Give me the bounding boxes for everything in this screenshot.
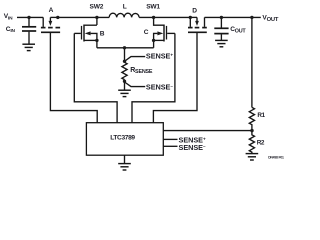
capacitor CIN [28,17,30,26]
ground RSENSE [118,89,131,91]
ground CIN [22,43,35,45]
wire gate B [74,33,117,122]
wire SENSE+ stub [163,138,177,140]
transistor A body diode arrow [49,21,53,26]
node SW2 junction [95,16,98,19]
wire gate D [153,33,197,123]
node D junction [189,16,192,19]
svg-text:C: C [144,29,149,36]
transistor D body diode arrow [195,21,199,26]
node SENSE- junction [123,80,126,83]
svg-text:D: D [192,7,197,14]
svg-text:SENSE+: SENSE+ [146,52,174,61]
node CIN junction [27,16,30,19]
node B source junction [95,39,98,42]
wire FB [163,130,252,132]
svg-text:SW1: SW1 [146,3,160,10]
transistor A [42,17,44,27]
node RSENSE top junction [123,46,126,49]
ground LTC3789 [124,155,126,163]
node VOUT junction [250,16,253,19]
wire SENSE+ leader [125,57,146,62]
wire D to VOUT [205,16,261,18]
op-amp U1 LTC3789 box [86,123,163,156]
resistor R2 [249,131,254,154]
svg-text:SENSE–: SENSE– [179,143,207,152]
ground R2 [246,153,259,155]
capacitor COUT [220,17,222,27]
svg-text:L: L [123,3,127,10]
svg-text:RSENSE: RSENSE [130,67,153,75]
svg-text:LTC3789: LTC3789 [110,135,135,142]
svg-text:R1: R1 [257,112,265,119]
ground COUT [215,39,228,41]
resistor R1 [249,107,254,130]
wire VOUT drop to R1 [251,17,253,107]
wire B source rail [97,47,154,49]
svg-text:SW2: SW2 [90,3,104,10]
svg-text:SENSE–: SENSE– [146,83,174,92]
resistor RSENSE [124,48,126,63]
wire gate A [50,33,97,123]
svg-text:A: A [49,7,54,14]
transistor D [189,17,191,27]
node A junction [56,16,59,19]
wire SW1 rail [139,16,190,18]
node FB junction [250,129,253,132]
transistor B [84,24,97,26]
inductor L [109,13,139,17]
wire SENSE- leader [125,82,146,87]
transistor B body diode arrow [85,31,91,35]
wire SENSE- stub [163,145,177,147]
wire SW2 drop [96,17,98,25]
transistor C body diode arrow [157,31,163,35]
svg-text:B: B [100,31,105,38]
node SENSE+ junction [123,60,126,63]
node COUT junction [220,16,223,19]
svg-text:R2: R2 [257,139,265,146]
wire VIN top rail [17,16,43,18]
svg-text:DN498 F01: DN498 F01 [268,155,284,159]
node SW1 junction [152,16,155,19]
transistor C [154,17,164,25]
node C source junction [152,39,155,42]
wire node A to SW2 [58,16,109,18]
wire gate C [132,33,175,122]
